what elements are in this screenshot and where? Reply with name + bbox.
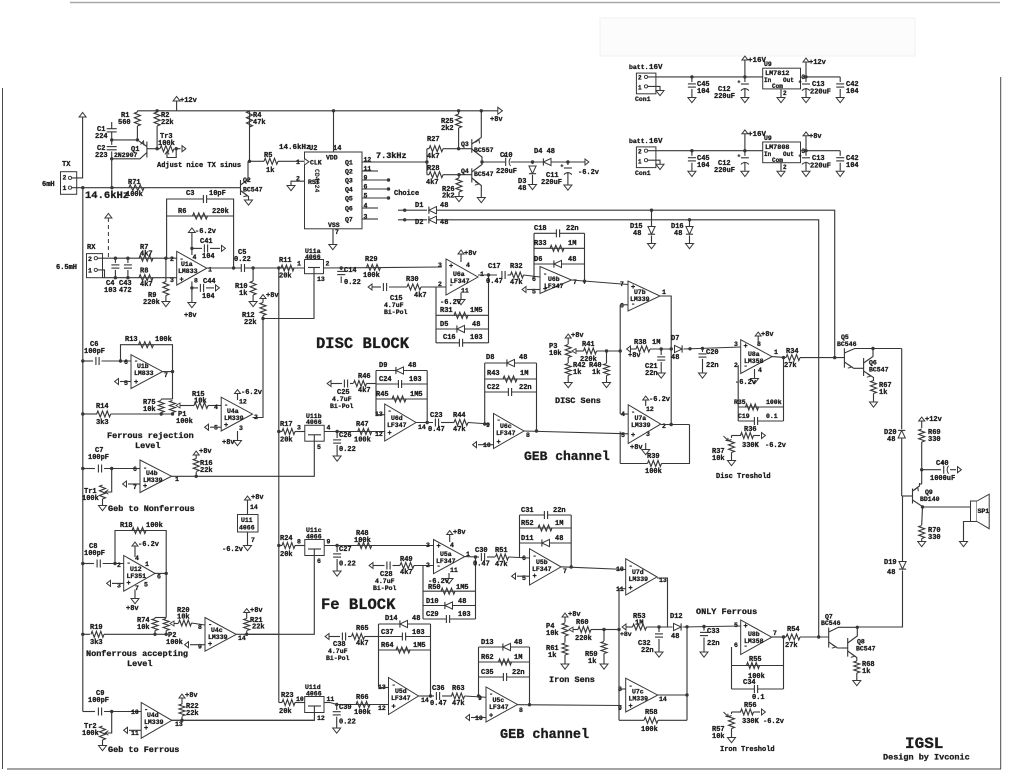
svg-text:+8v: +8v [250, 607, 263, 615]
svg-text:12: 12 [239, 399, 247, 406]
op-amp U8a LM358 [741, 340, 772, 374]
power +8v arrow B [804, 149, 807, 152]
wire U11d out [324, 702, 330, 704]
svg-text:Iron Sens: Iron Sens [549, 675, 595, 685]
wire U7a pin4 [620, 413, 628, 415]
svg-text:14: 14 [333, 145, 341, 153]
svg-text:1M: 1M [635, 620, 643, 628]
wire Q1 output 7.3kHz [362, 161, 427, 163]
svg-text:R49: R49 [400, 556, 413, 564]
svg-text:U4a: U4a [227, 408, 239, 415]
arrow U1b pin5 [120, 381, 131, 383]
svg-text:14.6kHz: 14.6kHz [85, 190, 129, 202]
IC U11 4066 power [238, 515, 259, 533]
connector Con1 batt A [636, 73, 656, 94]
feedback box U8a [737, 365, 739, 421]
switch U11a 4066 [305, 260, 324, 274]
svg-text:20k: 20k [280, 551, 293, 559]
svg-text:2: 2 [638, 148, 642, 155]
wire U11c pin6 control [247, 556, 315, 635]
svg-text:4: 4 [466, 262, 470, 269]
capacitor C41 104 [190, 247, 193, 250]
resistor R44 47k [454, 420, 468, 426]
op-amp U5d LF347 [389, 678, 419, 715]
diode D11 48 [520, 542, 572, 544]
svg-text:U5c: U5c [493, 697, 505, 704]
wire U1a pin4 supply [191, 233, 193, 256]
svg-text:220uF: 220uF [714, 167, 735, 175]
svg-text:+: + [744, 343, 748, 351]
resistor R15 10k [194, 403, 208, 409]
svg-text:C19: C19 [738, 413, 750, 420]
svg-text:103: 103 [412, 629, 425, 637]
svg-text:R19: R19 [90, 624, 103, 632]
svg-text:D12: D12 [670, 613, 683, 621]
svg-text:U6b: U6b [548, 276, 560, 283]
wire U4a output to R12 [253, 319, 264, 418]
power +12v R69 [919, 417, 925, 421]
svg-text:U5b: U5b [536, 559, 548, 566]
wire U4c out [236, 633, 247, 635]
svg-text:20k: 20k [279, 708, 292, 716]
svg-text:C17: C17 [488, 263, 501, 271]
svg-text:11: 11 [461, 288, 469, 295]
ground C21 [657, 373, 665, 378]
svg-text:5: 5 [214, 425, 218, 432]
svg-text:7: 7 [620, 281, 624, 288]
capacitor C10 220uF [506, 158, 511, 166]
switch U11b 4066 [295, 431, 305, 433]
svg-text:Con1: Con1 [635, 170, 651, 177]
ground C33 [700, 652, 708, 657]
resistor R9 220k [165, 258, 167, 281]
op-amp U4c LM339 [205, 618, 236, 652]
arrow U6c pin10 [478, 444, 494, 446]
svg-text:100pF: 100pF [84, 348, 105, 356]
svg-text:22n: 22n [645, 370, 658, 378]
wire U8b out [772, 636, 786, 638]
svg-text:104: 104 [697, 88, 710, 96]
svg-text:22k: 22k [161, 119, 174, 127]
resistor R50 1M5 [423, 590, 476, 592]
diode D4 48 [543, 158, 551, 165]
capacitor C37 103 [379, 636, 431, 638]
svg-text:100k: 100k [766, 399, 782, 406]
svg-text:Out: Out [783, 151, 794, 158]
connector TX [61, 172, 77, 195]
node Q1 base [136, 138, 139, 141]
wire sens to pin11 bus [604, 629, 619, 631]
capacitor C40 1000uF [920, 468, 923, 471]
svg-text:U7d: U7d [632, 569, 644, 576]
svg-text:+: + [392, 704, 396, 712]
main left bus vertical [82, 188, 84, 712]
svg-text:10: 10 [131, 709, 139, 716]
svg-text:10k: 10k [712, 733, 725, 741]
svg-text:TX: TX [62, 161, 71, 169]
svg-text:6: 6 [133, 466, 137, 473]
wire U7a out [661, 424, 690, 426]
svg-text:4k7: 4k7 [140, 281, 153, 289]
svg-text:6: 6 [317, 558, 321, 565]
svg-text:+: + [629, 703, 633, 711]
svg-text:104: 104 [846, 88, 859, 96]
svg-text:Q6: Q6 [869, 360, 877, 367]
svg-text:7: 7 [251, 537, 255, 544]
svg-text:C34: C34 [743, 679, 756, 687]
power +8v U8a [757, 336, 759, 344]
svg-text:+: + [497, 439, 501, 447]
resistor R23 20k [278, 634, 280, 702]
svg-text:R52: R52 [521, 520, 534, 528]
svg-text:C33: C33 [707, 628, 720, 636]
svg-text:1: 1 [638, 158, 642, 165]
svg-text:0.22: 0.22 [344, 279, 361, 287]
svg-text:R41: R41 [582, 341, 595, 349]
svg-text:C40: C40 [936, 460, 949, 468]
svg-text:+12v: +12v [809, 59, 827, 67]
svg-text:104: 104 [202, 293, 215, 301]
svg-text:14: 14 [250, 504, 258, 511]
svg-text:R45: R45 [376, 391, 389, 399]
resistor R52 1M [520, 527, 572, 529]
svg-text:103: 103 [470, 334, 483, 342]
resistor R53 1M [622, 624, 626, 630]
svg-text:+: + [629, 585, 633, 593]
trimmer Tr2 100k [110, 710, 113, 713]
svg-text:+8v: +8v [266, 292, 279, 300]
resistor R10 1k [251, 266, 254, 269]
svg-text:1: 1 [145, 561, 149, 568]
svg-text:2: 2 [117, 562, 121, 569]
svg-text:+: + [737, 80, 740, 86]
svg-text:+8v: +8v [251, 494, 264, 502]
ground U9 Com A [780, 89, 782, 97]
svg-text:Geb to Nonferrous: Geb to Nonferrous [108, 504, 195, 514]
svg-text:LF347: LF347 [544, 283, 564, 290]
resistor R25 [457, 109, 460, 112]
svg-text:4: 4 [450, 542, 454, 549]
switch U11c 4066 [295, 545, 305, 547]
svg-text:batt.: batt. [629, 138, 649, 145]
diode D8 48 [485, 362, 537, 364]
svg-text:+12v: +12v [925, 416, 943, 424]
svg-text:R13: R13 [125, 336, 138, 344]
svg-text:+: + [799, 153, 802, 159]
capacitor C26 0.22 [335, 430, 338, 433]
wire batt rail A [648, 76, 763, 78]
svg-text:22k: 22k [252, 624, 265, 632]
svg-text:+8v: +8v [761, 331, 774, 339]
wire DISC sample bus [437, 210, 835, 357]
wire U12 out [155, 572, 166, 574]
svg-text:1k: 1k [588, 658, 596, 666]
svg-text:+8v: +8v [620, 631, 632, 638]
svg-text:9: 9 [618, 705, 622, 712]
svg-text:1k: 1k [266, 167, 274, 175]
svg-text:9: 9 [327, 539, 331, 546]
svg-text:3k3: 3k3 [90, 639, 103, 647]
resistor R39 100k [619, 432, 621, 464]
svg-text:220uF: 220uF [714, 93, 735, 101]
wire Q5 collector rail [855, 348, 902, 350]
svg-text:+: + [631, 432, 635, 440]
svg-text:R58: R58 [645, 709, 658, 717]
resistor R66 100k [356, 702, 370, 708]
node R27/R28 input [425, 160, 428, 163]
svg-text:C27: C27 [339, 546, 352, 554]
feedback R13 100k [119, 359, 122, 362]
node D7 in [670, 347, 673, 350]
capacitor C43 472 [126, 257, 129, 260]
svg-text:48: 48 [568, 256, 576, 264]
svg-text:0.22: 0.22 [339, 446, 356, 454]
power +8v R12 [260, 295, 266, 299]
svg-text:330K: 330K [742, 718, 760, 726]
svg-text:D5: D5 [440, 321, 448, 329]
feedback box U8b [731, 647, 733, 689]
svg-text:0.47: 0.47 [428, 426, 445, 434]
svg-text:U7c: U7c [632, 689, 644, 696]
op-amp U7a LM339 [628, 405, 661, 444]
ground D15 [648, 244, 656, 249]
svg-text:C36: C36 [432, 685, 445, 693]
pot P4 10k [564, 617, 566, 623]
svg-text:D14: D14 [385, 615, 398, 623]
wire U6b out to U7b [572, 280, 629, 285]
svg-text:+8v: +8v [630, 444, 643, 452]
power +8v P3 [565, 334, 571, 338]
ground C20 [699, 373, 707, 378]
capacitor C42 104 B [839, 151, 841, 156]
svg-text:100pF: 100pF [84, 550, 105, 558]
op-amp U7b LM339 [628, 281, 660, 311]
resistor R48 100k [358, 543, 372, 549]
svg-text:C31: C31 [521, 507, 534, 515]
svg-text:LF347: LF347 [496, 430, 516, 437]
svg-text:7: 7 [773, 630, 777, 637]
resistor R30 4k7 [407, 284, 421, 290]
svg-text:C44: C44 [203, 278, 216, 286]
svg-text:4.7uF: 4.7uF [332, 396, 352, 403]
wire U5d out [419, 695, 435, 697]
svg-text:Level: Level [127, 659, 153, 669]
svg-text:7: 7 [135, 585, 139, 592]
diode D9 48 [376, 370, 427, 372]
diode D19 48 [902, 496, 904, 561]
svg-text:48: 48 [514, 639, 522, 647]
svg-text:10k: 10k [143, 406, 156, 414]
svg-text:6: 6 [532, 276, 536, 283]
svg-text:0.47: 0.47 [473, 561, 490, 569]
resistor R11 20k [281, 265, 294, 271]
svg-text:1M5: 1M5 [413, 642, 426, 650]
wire U4b out to U11b pin5 [172, 441, 315, 476]
svg-text:22k: 22k [186, 710, 199, 718]
svg-text:0.22: 0.22 [234, 256, 251, 264]
svg-text:-6.2v: -6.2v [440, 299, 462, 307]
capacitor C36 0.47 [436, 692, 439, 700]
feedback C3 10pF [167, 199, 234, 268]
resistor R35 100k [738, 406, 783, 408]
wire RX pin1 row [97, 270, 104, 278]
svg-text:U2: U2 [309, 145, 317, 153]
svg-text:22n: 22n [641, 647, 654, 655]
svg-text:+: + [449, 263, 453, 271]
svg-text:C26: C26 [339, 432, 352, 440]
svg-text:220uF: 220uF [496, 168, 517, 176]
diode D20 48 [898, 430, 905, 438]
resistor R46 4k7 [354, 381, 367, 387]
svg-text:+: + [143, 483, 147, 491]
ground Q4 emitter [477, 198, 485, 203]
diode D2 48 [398, 219, 405, 221]
connector RX [87, 254, 103, 278]
svg-text:22n: 22n [553, 507, 566, 515]
svg-text:+: + [437, 543, 441, 551]
svg-text:U8a: U8a [748, 351, 760, 358]
svg-text:14.6kHz: 14.6kHz [279, 144, 311, 152]
svg-text:100pF: 100pF [88, 697, 109, 705]
svg-text:48: 48 [633, 230, 641, 238]
svg-text:C30: C30 [475, 547, 488, 555]
arrow TX top [79, 113, 86, 118]
wire Q9 collector node [921, 505, 924, 508]
svg-text:14: 14 [418, 424, 426, 431]
resistor R62 1M [479, 661, 530, 663]
svg-text:1M: 1M [568, 240, 576, 248]
ground R59 [600, 664, 608, 669]
svg-text:Q4: Q4 [345, 187, 353, 194]
resistor R36 330K [732, 435, 742, 437]
svg-text:U1b: U1b [137, 363, 149, 370]
svg-text:+8v: +8v [222, 439, 235, 447]
svg-text:Bi-Pol: Bi-Pol [326, 655, 350, 662]
svg-text:224: 224 [95, 133, 108, 141]
power -6.2v U4a [237, 394, 239, 401]
svg-text:9: 9 [486, 422, 490, 429]
svg-text:0.1: 0.1 [752, 694, 765, 702]
svg-text:3: 3 [170, 277, 174, 284]
transistor Q4 BC547 [471, 168, 473, 182]
capacitor C12 220uF A [743, 75, 746, 78]
power -6.2v U1a [188, 228, 195, 233]
resistor R20 10k [179, 620, 192, 626]
svg-text:2: 2 [170, 256, 174, 263]
svg-text:R11: R11 [279, 257, 292, 265]
capacitor C19 0.1 [738, 420, 783, 422]
svg-text:220uF: 220uF [541, 179, 562, 187]
svg-text:LM358: LM358 [744, 638, 764, 645]
wire U9 out A [801, 76, 841, 78]
svg-text:220uF: 220uF [810, 89, 831, 97]
svg-text:20k: 20k [279, 273, 292, 281]
ground U9 Com B [780, 163, 782, 171]
svg-text:0.22: 0.22 [339, 561, 356, 569]
capacitor C2 [111, 140, 113, 145]
svg-text:560: 560 [118, 119, 131, 127]
vertical U7b pin6 bus [619, 305, 621, 414]
svg-text:+8v: +8v [464, 250, 477, 258]
stub Q5 out choice [362, 197, 389, 199]
svg-text:6: 6 [522, 555, 526, 562]
resistor R22 22k [180, 719, 183, 722]
diode D3 48 [531, 160, 534, 163]
svg-text:R31: R31 [440, 307, 453, 315]
wire +8v top rail [137, 110, 497, 112]
op-amp U5a LF347 [434, 540, 465, 574]
svg-text:47k: 47k [510, 279, 523, 287]
node R34 feedback [782, 356, 785, 359]
trimmer R57 10k [731, 712, 733, 714]
svg-text:1k: 1k [862, 668, 870, 676]
svg-text:100k: 100k [645, 468, 662, 476]
wire U7b pin6 [620, 304, 628, 306]
op-amp U4d LM339 [141, 703, 172, 739]
capacitor C39 0.22 [336, 705, 338, 711]
resistor R63 47k [452, 693, 465, 699]
resistor R59 1k [602, 628, 605, 631]
power +8v U4a [237, 431, 239, 440]
svg-text:C22: C22 [487, 384, 500, 392]
arrow U4a pin5 [210, 426, 221, 428]
svg-text:4066: 4066 [239, 525, 255, 532]
resistor R8 4k7 [139, 275, 153, 281]
op-amp U5c LF347 [486, 687, 518, 722]
svg-text:+: + [180, 277, 184, 285]
ground R42 [564, 383, 572, 388]
svg-text:2k2: 2k2 [442, 193, 455, 201]
svg-text:Ferrous rejection: Ferrous rejection [107, 431, 194, 441]
svg-text:R32: R32 [510, 263, 523, 271]
node DISC bus Q5 [833, 356, 836, 359]
svg-text:7: 7 [133, 484, 137, 491]
wire U7d out [657, 578, 668, 627]
capacitor C42 104 A [839, 77, 841, 82]
svg-text:-6.2v: -6.2v [763, 718, 785, 726]
svg-text:22n: 22n [519, 384, 532, 392]
svg-text:RX: RX [87, 244, 96, 252]
svg-text:5: 5 [317, 444, 321, 451]
svg-text:10k: 10k [137, 624, 150, 632]
svg-text:1k: 1k [879, 389, 887, 397]
svg-text:47k: 47k [253, 119, 266, 127]
svg-text:R50: R50 [428, 584, 441, 592]
svg-text:22k: 22k [200, 467, 213, 475]
ground R26 [455, 197, 463, 202]
resistor R49 4k7 [400, 563, 414, 569]
resistor R45 1M5 [376, 398, 427, 400]
capacitor C34 0.1 [732, 688, 784, 690]
wire U7c pin8 [619, 688, 626, 690]
svg-text:48: 48 [440, 202, 448, 210]
svg-text:0.47: 0.47 [430, 700, 447, 708]
svg-text:BD140: BD140 [920, 496, 940, 503]
wire U11 pin7 [247, 532, 249, 545]
svg-text:Q6: Q6 [345, 206, 353, 213]
op-amp U1b LM833 [131, 355, 163, 389]
svg-text:D9: D9 [379, 362, 387, 370]
svg-text:D7: D7 [671, 335, 679, 343]
svg-text:R8: R8 [140, 268, 148, 276]
svg-text:D11: D11 [521, 535, 534, 543]
svg-text:Q2: Q2 [345, 169, 353, 176]
transistor Q2 BC547 [240, 180, 242, 195]
svg-text:1: 1 [662, 289, 666, 296]
capacitor C12 220uF B [743, 149, 746, 152]
capacitor C9 100pF [83, 711, 95, 713]
svg-text:48: 48 [555, 535, 563, 543]
